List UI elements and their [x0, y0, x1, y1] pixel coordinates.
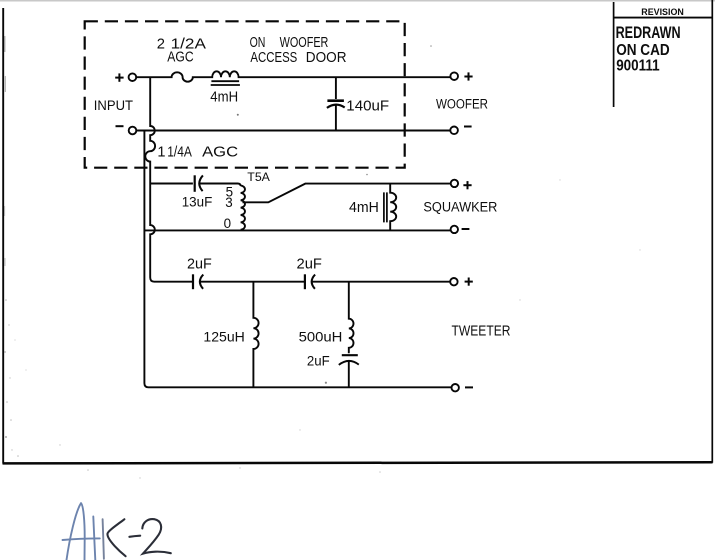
svg-text:DOOR: DOOR [306, 50, 347, 66]
svg-text:REDRAWN: REDRAWN [616, 24, 681, 42]
svg-text:2uF: 2uF [307, 354, 330, 369]
capacitor C1 140uF lead top [335, 77, 337, 99]
capacitor C5 lead bottom [348, 361, 350, 387]
revision block header rule [614, 17, 713, 19]
input plus sign [115, 73, 123, 81]
capacitor C3 2uF curved plate [200, 275, 203, 289]
svg-text:WOOFER: WOOFER [280, 34, 329, 51]
right border frame [711, 0, 713, 463]
svg-text:1: 1 [157, 144, 165, 160]
svg-text:2uF: 2uF [187, 255, 212, 272]
scan speckle dots [237, 45, 432, 384]
handwritten A blue left stroke [63, 503, 104, 560]
svg-text:AGC: AGC [167, 50, 193, 66]
svg-text:TWEETER: TWEETER [452, 324, 511, 340]
input minus terminal [129, 127, 137, 135]
tweeter plus terminal [450, 278, 457, 285]
svg-text:REVISION: REVISION [641, 7, 684, 18]
tweeter minus sign [465, 386, 473, 388]
inductor L3 125uH [253, 282, 258, 388]
capacitor C2 13uF curved plate [199, 175, 203, 191]
wire: tap 3 to squawker plus terminal [243, 184, 451, 203]
svg-text:125uH: 125uH [203, 330, 244, 346]
svg-text:900111: 900111 [616, 58, 660, 75]
handwritten K light vertical [103, 519, 104, 559]
woofer plus sign [464, 72, 472, 80]
capacitor C4 2uF curved plate [312, 275, 315, 289]
svg-text:SQUAWKER: SQUAWKER [423, 200, 497, 216]
left border frame [2, 8, 4, 464]
capacitor C2 13uF flat plate [194, 175, 196, 192]
inductor L2 core lines [384, 192, 387, 222]
svg-text:2uF: 2uF [297, 255, 322, 272]
capacitor C1 lead bottom [335, 105, 337, 131]
svg-text:AGC: AGC [202, 144, 238, 160]
bottom border frame [3, 462, 713, 463]
svg-text:3: 3 [225, 195, 232, 210]
input plus terminal [129, 73, 137, 81]
capacitor C3 2uF flat plate [192, 274, 194, 289]
wire: squawker plus feed [150, 183, 193, 185]
wire: squawker minus rail [144, 229, 450, 231]
svg-text:2: 2 [157, 37, 165, 53]
svg-text:0: 0 [224, 216, 231, 231]
handwritten A blue crossbar [63, 538, 100, 540]
inductor L2 4mH squawker winding [390, 184, 396, 231]
handwritten 2 [142, 519, 171, 554]
handwritten dash [129, 536, 140, 537]
svg-text:INPUT: INPUT [94, 98, 134, 113]
wire: top plus rail with fuse F1 and inductor L1 humps [136, 71, 450, 81]
top faint scan edge [0, 0, 715, 2]
capacitor C1 flat plate [327, 99, 344, 102]
tweeter plus sign [465, 278, 473, 286]
svg-text:13uF: 13uF [182, 195, 213, 210]
handwritten A blue right leg [81, 503, 85, 560]
woofer plus terminal [450, 72, 458, 80]
svg-text:WOOFER: WOOFER [436, 97, 488, 113]
svg-text:1/4A: 1/4A [167, 144, 192, 160]
squawker plus terminal [451, 180, 458, 187]
dashed enclosure box (on woofer access door) [85, 21, 405, 167]
svg-text:ON CAD: ON CAD [616, 42, 670, 59]
capacitor C4 2uF flat plate [304, 274, 306, 289]
svg-text:4mH: 4mH [349, 200, 379, 216]
tweeter minus terminal [452, 384, 459, 391]
squawker plus sign [463, 181, 471, 189]
woofer minus sign [464, 126, 472, 128]
svg-text:ON: ON [250, 34, 266, 51]
inductor L4 500uH [349, 282, 354, 354]
capacitor C1 curved plate [327, 105, 345, 108]
woofer minus terminal [450, 127, 458, 135]
input minus sign [116, 125, 124, 127]
svg-text:140uF: 140uF [346, 99, 389, 115]
handwritten A blue second vertical [93, 517, 95, 560]
wire: minus bus down left side to tweeter minus [144, 131, 451, 388]
revision block left line [613, 2, 615, 107]
wire: plus bus with hop over minus rail, fuse F2, hop over squawker minus [145, 77, 193, 282]
capacitor C5 2uF curved plate [339, 361, 359, 365]
inductor L1 core lines [211, 81, 240, 85]
wire: between C3 and C4 [200, 281, 304, 283]
capacitor C5 2uF flat plate [342, 354, 358, 356]
handwritten K dark stroke [107, 519, 170, 556]
svg-text:500uH: 500uH [299, 330, 343, 346]
squawker minus terminal [451, 226, 458, 233]
svg-text:4mH: 4mH [210, 89, 238, 105]
svg-text:ACCESS: ACCESS [250, 50, 297, 66]
scan speckle noise left margin [4, 36, 6, 52]
wire: cap to autotransformer [200, 184, 241, 187]
autotransformer T5A winding [241, 186, 245, 230]
svg-text:T5A: T5A [247, 170, 270, 184]
wire: minus rail input to woofer [136, 130, 450, 132]
squawker minus sign [462, 228, 470, 230]
wire: C4 to tweeter plus terminal [312, 281, 450, 283]
